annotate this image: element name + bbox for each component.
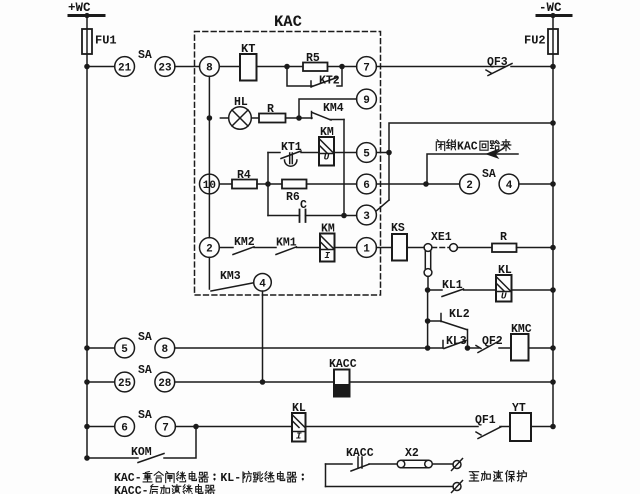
node junction YT/right rail	[550, 424, 556, 430]
wire bottom row	[326, 486, 454, 488]
svg-text:KACC: KACC	[346, 447, 374, 460]
connector XE1	[424, 231, 457, 290]
node 6	[357, 174, 377, 194]
wire	[257, 183, 282, 185]
node 5 (SA)	[115, 338, 135, 358]
wire right rail	[552, 16, 554, 427]
wire	[407, 247, 424, 249]
wire KS row	[376, 247, 392, 249]
wire	[251, 117, 259, 119]
wire	[529, 347, 554, 349]
node 7 (SA)	[156, 417, 176, 437]
wire	[87, 381, 115, 383]
svg-text:R: R	[500, 231, 507, 244]
svg-text:SA: SA	[482, 168, 496, 181]
svg-text:4: 4	[506, 180, 513, 192]
relay coil KM (voltage element U)	[319, 126, 334, 166]
contact KL1	[442, 279, 464, 297]
wire	[297, 247, 321, 249]
svg-text:4: 4	[259, 278, 266, 290]
wire	[468, 347, 480, 349]
wire blocking KAC circuit with arrow	[427, 148, 518, 184]
wire	[369, 463, 397, 465]
node junction node4 column	[260, 379, 266, 385]
node 21	[115, 57, 135, 77]
svg-text:KT2: KT2	[319, 75, 340, 88]
relay coil KL (current element I)	[292, 402, 306, 442]
wire diagonal to node 3	[377, 200, 389, 211]
node 8 (SA)	[155, 338, 175, 358]
wire	[87, 347, 115, 349]
svg-text:KS: KS	[391, 222, 405, 235]
power rail +WC	[68, 1, 104, 18]
wire	[335, 247, 357, 249]
svg-text:FU2: FU2	[524, 34, 546, 48]
node 6 (SA)	[115, 417, 135, 437]
node junction R/right rail	[550, 245, 556, 251]
wire	[432, 463, 453, 465]
terminal to acceleration protection (bottom)	[452, 481, 463, 493]
svg-text:R5: R5	[306, 52, 320, 65]
node junction 9/KM4	[296, 115, 302, 121]
node junction left rail 5	[84, 345, 90, 351]
wire vertical KL1 column down	[427, 290, 429, 348]
relay coil KM (current element I)	[320, 223, 335, 262]
svg-text:8: 8	[206, 63, 213, 75]
svg-text:KL-: KL-	[220, 472, 241, 485]
fuse FU2	[524, 29, 558, 54]
wire	[286, 117, 313, 119]
contact KM1	[276, 237, 297, 255]
wire	[457, 247, 492, 249]
node 3	[357, 205, 377, 225]
svg-text:7: 7	[162, 423, 169, 435]
node label: blocking KAC circuit text (闭锁KAC回路来)	[436, 140, 511, 154]
svg-text:SA: SA	[138, 364, 152, 377]
svg-text:SA: SA	[138, 331, 152, 344]
wire	[301, 152, 319, 154]
svg-text:2: 2	[466, 180, 473, 192]
wire	[175, 381, 334, 383]
svg-text:R6: R6	[286, 191, 300, 204]
node junction left rail 6	[84, 424, 90, 430]
fuse FU1	[82, 29, 117, 54]
svg-text:C: C	[300, 199, 307, 212]
svg-text:KL: KL	[292, 402, 306, 415]
svg-text:28: 28	[158, 378, 172, 390]
wire	[254, 247, 276, 249]
resistor R4	[232, 169, 257, 189]
svg-text:U: U	[501, 291, 507, 302]
wire	[219, 247, 233, 249]
wire to node 9	[299, 99, 357, 118]
svg-text:QF2: QF2	[482, 335, 503, 348]
wire	[376, 66, 505, 68]
svg-text:XE1: XE1	[431, 231, 452, 244]
wire	[219, 183, 232, 185]
svg-text:KM3: KM3	[220, 270, 241, 283]
wire	[175, 66, 200, 68]
wire vertical 8-10-2	[208, 76, 210, 237]
position indicator KACC	[329, 358, 357, 397]
contact KL3	[443, 335, 467, 349]
svg-text:KAC: KAC	[457, 141, 478, 154]
wire	[517, 247, 554, 249]
relay coil KMC	[511, 323, 532, 361]
node junction R4/R6	[265, 181, 271, 187]
terminal to acceleration protection (top)	[452, 459, 463, 471]
svg-text:21: 21	[118, 63, 132, 75]
node junction QF3/right rail	[550, 64, 556, 70]
breaker contact QF2	[476, 335, 503, 353]
node 25	[115, 372, 135, 392]
svg-text:KM4: KM4	[323, 102, 344, 115]
node label: to acceleration protection text (至加速保护)	[469, 471, 526, 482]
relay KS	[391, 222, 407, 261]
trip coil YT	[510, 402, 531, 441]
node junction right of R5	[339, 64, 345, 70]
wire bracket	[325, 464, 327, 487]
resistor R	[259, 103, 286, 123]
resistor R5	[303, 52, 328, 71]
node junction C/KM4	[341, 213, 347, 219]
wire	[175, 426, 292, 428]
contact KOM	[87, 446, 164, 463]
wire	[87, 426, 115, 428]
contact KM3 branch	[209, 257, 253, 291]
svg-text:7: 7	[363, 63, 370, 75]
svg-text:6: 6	[363, 180, 370, 192]
wire	[257, 66, 304, 68]
node junction HL branch	[207, 115, 213, 121]
node junction KOM bypass	[193, 424, 199, 430]
node junction XE1/KL1	[425, 287, 431, 293]
svg-text:5: 5	[121, 344, 128, 356]
breaker contact QF1	[475, 414, 501, 439]
node 10	[200, 174, 220, 194]
node junction link column	[386, 150, 392, 156]
wire	[328, 66, 357, 68]
relay coil KL (voltage element U)	[496, 264, 512, 302]
wire	[500, 426, 510, 428]
node 1	[357, 238, 377, 258]
svg-text:R4: R4	[237, 169, 251, 182]
wire	[519, 183, 553, 185]
contact KL2	[428, 308, 470, 348]
node junction SA4/right rail	[550, 181, 556, 187]
lamp HL	[220, 96, 251, 129]
svg-text:2: 2	[206, 244, 213, 256]
wire	[87, 66, 115, 68]
node 28	[155, 372, 175, 392]
svg-text:KOM: KOM	[131, 446, 152, 459]
svg-text:KL1: KL1	[442, 279, 463, 292]
svg-text:KT1: KT1	[281, 141, 302, 154]
wire	[464, 289, 497, 291]
svg-text:KM2: KM2	[234, 236, 255, 249]
svg-text:R: R	[267, 103, 274, 116]
wire	[306, 215, 357, 217]
breaker contact QF3	[486, 56, 512, 76]
wire	[499, 347, 511, 349]
svg-text:YT: YT	[512, 402, 526, 415]
wire node5 to link column	[376, 152, 389, 154]
svg-text:KM1: KM1	[276, 237, 297, 250]
svg-text:SA: SA	[138, 409, 152, 422]
wire	[428, 289, 442, 291]
node 7	[357, 57, 377, 77]
node 2	[200, 238, 220, 258]
wire	[164, 427, 196, 459]
wire	[512, 289, 554, 291]
svg-text:I: I	[324, 250, 330, 261]
relay coil KT	[240, 42, 257, 81]
svg-text:+WC: +WC	[68, 1, 91, 15]
node junction left rail KOM	[84, 455, 90, 461]
wire link column up and to right rail	[389, 123, 553, 200]
wire	[219, 66, 240, 68]
svg-text:X2: X2	[405, 447, 419, 460]
node junction KMC/right rail	[550, 345, 556, 351]
capacitor C	[268, 199, 307, 222]
svg-text:SA: SA	[138, 49, 152, 62]
svg-text:23: 23	[158, 63, 172, 75]
node junction KL/right rail	[550, 287, 556, 293]
power rail -WC	[537, 1, 571, 18]
wire	[307, 183, 357, 185]
contact KACC (time delay)	[346, 447, 374, 471]
node junction KL3 left	[425, 345, 431, 351]
node 23	[155, 57, 175, 77]
node 4	[254, 274, 272, 292]
svg-text:QF1: QF1	[475, 414, 496, 427]
contact KT1 (time delay)	[281, 141, 302, 166]
svg-text:KACC: KACC	[329, 358, 357, 371]
svg-text:5: 5	[363, 149, 370, 161]
KAC enclosure (dashed)	[195, 13, 381, 295]
wire KM4 down to C row	[343, 120, 345, 216]
wire	[511, 66, 553, 68]
node junction link/right rail	[550, 120, 556, 126]
resistor R (discharge)	[492, 231, 517, 252]
svg-text:KM: KM	[320, 126, 334, 139]
contact KM2	[233, 236, 255, 255]
node junction row25/right rail	[550, 379, 556, 385]
svg-text:KL2: KL2	[449, 308, 470, 321]
wire node4 down to row 25-28	[262, 291, 264, 382]
svg-text:-WC: -WC	[539, 1, 562, 15]
node junction KL2	[425, 318, 431, 324]
caption line 1 (KAC-重合闸继电器；KL-防跳继电器；)	[114, 472, 304, 486]
resistor R6	[282, 180, 307, 205]
wire	[175, 347, 443, 349]
svg-text:KL3: KL3	[446, 335, 467, 348]
svg-text:1: 1	[363, 244, 370, 256]
svg-text:3: 3	[363, 211, 370, 223]
node 4 (SA)	[499, 174, 519, 194]
svg-text:KL: KL	[498, 264, 512, 277]
node junction left of R5	[284, 64, 290, 70]
svg-text:FU1: FU1	[95, 34, 117, 48]
switch KM4	[312, 102, 345, 120]
svg-text:KACC-: KACC-	[114, 485, 149, 494]
svg-text:KAC-: KAC-	[114, 472, 142, 485]
svg-text:QF3: QF3	[487, 56, 508, 69]
node 2 (SA)	[460, 174, 480, 194]
node 9	[357, 89, 377, 109]
svg-text:6: 6	[121, 423, 128, 435]
node 8	[200, 57, 220, 77]
svg-text:10: 10	[203, 180, 216, 192]
caption line 2 (KACC-后加速继电器)	[114, 485, 215, 499]
switch KT2 (bypass of R5)	[287, 67, 342, 88]
wire left rail	[86, 16, 88, 459]
svg-text:KT: KT	[241, 42, 255, 56]
node junction KL2/KL3	[465, 345, 471, 351]
svg-text:HL: HL	[234, 96, 248, 109]
svg-text:8: 8	[161, 344, 168, 356]
svg-text:I: I	[296, 431, 302, 442]
svg-text:KM: KM	[321, 223, 335, 236]
wire	[531, 426, 553, 428]
wire node6 to SA2	[376, 183, 459, 185]
svg-text:9: 9	[363, 95, 370, 107]
svg-text:25: 25	[118, 378, 132, 390]
wire	[350, 381, 554, 383]
node 5	[357, 143, 377, 163]
svg-text:U: U	[324, 152, 330, 163]
node junction blocking line	[423, 181, 429, 187]
wire	[334, 152, 357, 154]
svg-text:KMC: KMC	[511, 323, 532, 336]
connector X2	[397, 447, 432, 468]
svg-text:KAC: KAC	[274, 13, 302, 31]
node 21 junction on left rail	[84, 64, 90, 70]
node junction left rail 25	[84, 379, 90, 385]
wire branch from R4 junction up	[267, 153, 269, 216]
wire	[306, 426, 479, 428]
